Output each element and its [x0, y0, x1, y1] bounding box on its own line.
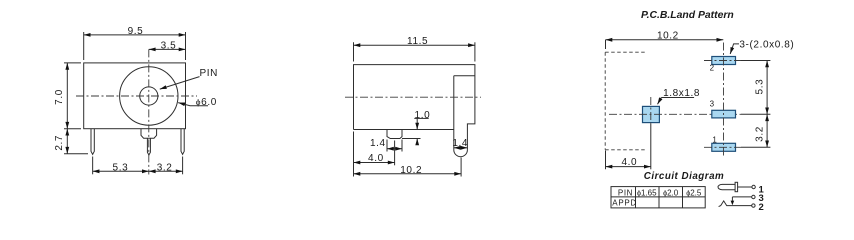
dimension 1.4 (side leg) [452, 138, 468, 149]
title P.C.B.Land Pattern [641, 10, 734, 21]
plug symbol (pin 1 tip) [718, 182, 738, 191]
vertical centerline front view [148, 49, 150, 174]
svg-text:1: 1 [712, 136, 717, 145]
pin 2 label [759, 202, 764, 213]
pin 1 label [759, 185, 765, 196]
barrel circle (outer, phi 6.0) [120, 67, 178, 125]
square pad 1.8x1.8 [643, 106, 660, 122]
pad 2 (top) [712, 57, 736, 65]
title Circuit Diagram [644, 171, 724, 182]
svg-text:4.0: 4.0 [621, 157, 637, 168]
svg-text:10.2: 10.2 [400, 165, 422, 176]
svg-text:ϕ1.65: ϕ1.65 [637, 188, 657, 197]
square pad vertical centerline [650, 97, 652, 169]
svg-text:ϕ2.5: ϕ2.5 [686, 188, 702, 197]
svg-text:9.5: 9.5 [128, 26, 144, 37]
front view body outline [84, 63, 186, 129]
svg-text:2.7: 2.7 [54, 135, 65, 151]
spec table [611, 187, 705, 208]
svg-text:PIN: PIN [200, 68, 218, 79]
svg-text:3: 3 [710, 100, 715, 109]
svg-text:Circuit Diagram: Circuit Diagram [644, 171, 724, 182]
bottom bump side view [387, 130, 402, 139]
pad number 3 [710, 100, 715, 109]
dimension 4.0 land pattern [606, 151, 651, 170]
svg-text:2: 2 [759, 202, 764, 213]
side leg rounded bottom [454, 150, 468, 157]
center pin shaft [147, 138, 150, 155]
horizontal centerline side view [345, 96, 481, 98]
pad number 2 [710, 64, 715, 73]
svg-text:3-(2.0x0.8): 3-(2.0x0.8) [739, 39, 794, 50]
dimension 10.2 land pattern [606, 31, 724, 49]
svg-text:2: 2 [710, 64, 715, 73]
pin hole circle (inner) [140, 87, 158, 105]
land pattern horizontal centerline [609, 113, 770, 115]
right leg front view [181, 129, 184, 155]
dimension 4.0 [354, 132, 395, 177]
svg-text:1.4: 1.4 [370, 138, 386, 149]
svg-text:5.3: 5.3 [113, 163, 129, 174]
dimension 11.5 [354, 36, 475, 61]
dimension 2.7 [54, 129, 88, 154]
dimension 1.4 (bump) [370, 138, 402, 151]
pad 3 (middle) [712, 110, 736, 118]
PIN label and leader [160, 68, 218, 89]
vertical centerline pads [723, 43, 725, 158]
label 1.8x1.8 with leader [658, 88, 701, 105]
dimension 3.2 [149, 163, 183, 174]
pad number 1 [712, 136, 717, 145]
pin 3 label [759, 193, 764, 204]
svg-text:P.C.B.Land Pattern: P.C.B.Land Pattern [641, 10, 734, 21]
pin 3 wire and terminal [732, 195, 755, 198]
pad 1 centerline and extension [704, 146, 770, 148]
dashed component outline [605, 52, 646, 150]
svg-text:ϕ2.0: ϕ2.0 [663, 188, 679, 197]
svg-text:4.0: 4.0 [368, 153, 384, 164]
svg-text:3.2: 3.2 [754, 126, 765, 142]
svg-text:11.5: 11.5 [407, 36, 428, 47]
switch contact arrow [731, 197, 735, 205]
svg-text:10.2: 10.2 [657, 31, 679, 42]
svg-text:1.4: 1.4 [452, 138, 468, 149]
dimension 5.3 [93, 157, 183, 175]
svg-text:ϕ6.0: ϕ6.0 [196, 97, 217, 108]
dimension 9.5 [84, 26, 186, 60]
svg-text:3.2: 3.2 [157, 163, 173, 174]
dimension 3.2 land pattern [754, 114, 767, 147]
pad 2 centerline and extension [704, 60, 770, 62]
phi 6.0 label and leader [178, 97, 217, 108]
pin 1 wire and terminal [738, 185, 756, 188]
svg-text:3.5: 3.5 [161, 41, 177, 52]
dimension 7.0 [54, 63, 81, 129]
label 3-(2.0x0.8) with leader [730, 39, 794, 54]
center pin base [141, 129, 157, 139]
svg-text:APPD: APPD [612, 199, 637, 208]
svg-text:5.3: 5.3 [754, 79, 765, 95]
dimension 10.2 side view [354, 158, 462, 177]
side view body outline [354, 65, 475, 150]
horizontal centerline front view [76, 95, 197, 97]
dimension 1.0 [402, 110, 430, 144]
dimension 3.5 [149, 41, 186, 52]
svg-text:7.0: 7.0 [54, 89, 65, 105]
dimension 5.3 land pattern [754, 61, 767, 115]
svg-text:PIN: PIN [618, 188, 633, 197]
pin 2 spring contact wire [719, 201, 756, 207]
left leg front view [91, 129, 94, 155]
pad 1 (bottom) [712, 143, 736, 151]
